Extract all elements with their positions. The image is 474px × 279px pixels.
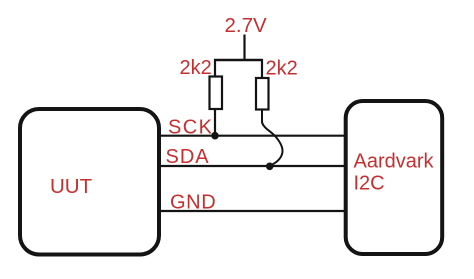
junction dot on SDA <box>266 163 274 171</box>
wire R1 bottom lead <box>214 109 216 136</box>
svg-text:SDA: SDA <box>166 146 210 168</box>
wire R1 top lead <box>214 59 216 78</box>
Aardvark I2C box U2 <box>346 101 443 254</box>
svg-text:I2C: I2C <box>354 172 385 194</box>
svg-text:UUT: UUT <box>50 175 93 198</box>
resistor R1 body <box>210 77 223 110</box>
wire SDA net <box>160 165 345 167</box>
wire 2.7V stem <box>243 35 245 62</box>
wire GND net <box>160 210 345 212</box>
svg-text:GND: GND <box>170 192 216 214</box>
svg-text:2.7V: 2.7V <box>225 14 267 37</box>
junction dot on SCK <box>211 132 219 140</box>
svg-text:Aardvark: Aardvark <box>354 151 435 173</box>
wire R2 bottom lead with hop over SCK to SDA <box>262 110 283 166</box>
resistor R2 body <box>256 78 269 110</box>
wire R2 top lead <box>261 59 263 79</box>
svg-text:2k2: 2k2 <box>180 57 212 79</box>
svg-text:2k2: 2k2 <box>266 57 298 79</box>
wire supply tee bar <box>214 59 263 61</box>
wire SCK net <box>160 135 345 137</box>
UUT box U1 <box>20 109 159 255</box>
svg-text:SCK: SCK <box>168 116 213 138</box>
